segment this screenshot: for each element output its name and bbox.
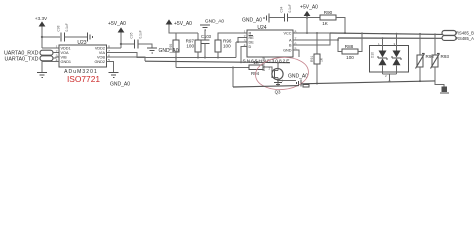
svg-text:GND_A0: GND_A0 — [242, 18, 262, 24]
chassis terminal — [440, 87, 449, 94]
wire — [232, 68, 234, 88]
power +5V_A0 — [166, 19, 198, 33]
port UARTA0_RXD — [4, 50, 59, 57]
svg-text:R: R — [249, 32, 252, 36]
resistor R94 — [249, 60, 272, 76]
svg-text:U23: U23 — [77, 40, 86, 46]
svg-text:+3.3V: +3.3V — [35, 16, 48, 21]
resistor R90 — [320, 10, 346, 34]
svg-text:UARTA0_TXD: UARTA0_TXD — [5, 57, 39, 63]
svg-text:GND_A0: GND_A0 — [205, 19, 225, 25]
wire GND2 — [107, 62, 114, 73]
svg-text:VDD2: VDD2 — [95, 47, 105, 51]
ground sideways GND_A0 — [288, 74, 308, 87]
svg-text:VIA: VIA — [99, 51, 106, 55]
svg-text:+5V_A0: +5V_A0 — [108, 21, 126, 27]
transistor Q3 BSS138 — [262, 57, 284, 94]
varistor R93 — [431, 33, 450, 81]
capacitor C103 — [201, 34, 212, 58]
ground GND_A0 — [147, 48, 179, 54]
svg-text:1K: 1K — [320, 57, 324, 62]
svg-text:GND: GND — [283, 49, 292, 53]
wire — [235, 42, 237, 58]
wire VDD2 — [107, 47, 122, 49]
svg-text:Q3: Q3 — [275, 90, 281, 95]
wire — [42, 36, 60, 38]
svg-text:R90: R90 — [324, 10, 333, 15]
svg-text:RE: RE — [249, 36, 255, 40]
svg-text:1K: 1K — [253, 60, 258, 65]
node junction — [41, 36, 43, 38]
node junction — [120, 43, 122, 45]
svg-text:D: D — [249, 45, 252, 49]
wire B — [293, 33, 330, 45]
ground GND_A0 — [242, 14, 269, 24]
wire — [42, 47, 59, 49]
wire ground rail right — [301, 81, 435, 84]
svg-text:100: 100 — [186, 44, 194, 49]
wire — [138, 44, 152, 48]
power +5V_A0 — [108, 21, 126, 48]
svg-text:GND2: GND2 — [94, 60, 105, 64]
wire — [278, 80, 296, 82]
wire VIA — [107, 53, 237, 58]
svg-text:ISO7721: ISO7721 — [67, 74, 100, 84]
svg-text:0.1uF: 0.1uF — [139, 30, 143, 38]
svg-text:R93: R93 — [441, 54, 450, 59]
svg-text:+5V_A0: +5V_A0 — [174, 21, 192, 27]
net tie box on rail — [303, 84, 309, 87]
TVS diode array D10 — [370, 33, 409, 82]
ground under Q3 — [274, 83, 282, 85]
wire GND — [293, 50, 299, 57]
svg-text:+5V_A0: +5V_A0 — [300, 5, 318, 11]
wire D — [241, 47, 247, 63]
svg-text:4: 4 — [244, 43, 246, 47]
capacitor C98 — [57, 23, 70, 41]
svg-text:C95: C95 — [130, 32, 134, 38]
varistor R92 — [416, 33, 435, 82]
svg-text:RS485_A: RS485_A — [456, 36, 474, 41]
svg-text:GND_A0: GND_A0 — [110, 82, 130, 88]
svg-text:VDD1: VDD1 — [61, 47, 71, 51]
svg-text:1K: 1K — [322, 21, 329, 26]
svg-text:0.1uF: 0.1uF — [65, 23, 69, 31]
svg-text:RS485_B: RS485_B — [456, 31, 474, 36]
resistor R91 — [310, 33, 324, 85]
wire ground rail left — [233, 86, 299, 87]
svg-text:D10: D10 — [371, 52, 375, 58]
wire VCC rail — [293, 32, 345, 34]
highlight ellipse — [254, 55, 310, 91]
svg-text:GND1: GND1 — [61, 60, 72, 64]
svg-text:R95: R95 — [169, 44, 173, 50]
wire — [65, 36, 88, 38]
svg-text:C94: C94 — [280, 6, 284, 12]
svg-text:VIB: VIB — [61, 56, 68, 60]
svg-text:3: 3 — [56, 54, 58, 58]
node junction drain — [277, 62, 279, 64]
ground sideways — [88, 33, 93, 42]
wire DE/RE node — [176, 67, 249, 69]
transceiver U24 SN65HVD3082E — [243, 25, 297, 65]
resistor R97 — [186, 33, 201, 58]
capacitor C94 — [280, 4, 293, 21]
resistor R88 — [338, 32, 363, 60]
svg-text:U24: U24 — [257, 25, 266, 31]
ground GND_A0 — [200, 19, 224, 41]
wire — [121, 43, 134, 45]
port UARTA0_TXD — [5, 56, 59, 63]
wire to chassis — [435, 81, 444, 87]
wire RE — [238, 38, 247, 43]
port RS485A — [442, 36, 474, 42]
svg-text:C103: C103 — [201, 34, 212, 39]
wire VOB — [107, 57, 146, 61]
node junctions — [175, 57, 177, 59]
wire A — [293, 38, 338, 40]
svg-text:1: 1 — [244, 30, 246, 34]
svg-text:C98: C98 — [57, 25, 61, 31]
resistor R95 — [169, 33, 179, 68]
svg-text:100: 100 — [346, 55, 354, 60]
svg-text:2: 2 — [244, 34, 246, 38]
isolator U23 ADuM3201 — [56, 40, 110, 75]
svg-text:R88: R88 — [345, 44, 354, 49]
svg-text:VCC: VCC — [283, 32, 291, 36]
power +3.3V — [35, 16, 48, 48]
svg-text:R91: R91 — [310, 56, 314, 62]
svg-text:2: 2 — [56, 49, 58, 53]
capacitor C95 — [130, 30, 143, 48]
wire — [288, 17, 321, 19]
node junction — [277, 80, 279, 82]
power +5V_A0 — [300, 5, 318, 34]
svg-text:100: 100 — [223, 44, 231, 49]
svg-text:VOB: VOB — [97, 56, 105, 60]
svg-text:1: 1 — [56, 45, 58, 49]
ground GND_A0 — [109, 73, 131, 88]
svg-text:DE: DE — [249, 41, 255, 45]
svg-text:GND_A0: GND_A0 — [288, 74, 308, 80]
wire — [269, 17, 284, 19]
wire GND1 — [42, 62, 59, 73]
wire DE — [236, 41, 247, 43]
svg-text:0.1uF: 0.1uF — [288, 4, 292, 12]
port RS485B — [442, 31, 474, 36]
svg-text:VOA: VOA — [61, 51, 69, 55]
ground — [37, 73, 47, 78]
svg-text:3: 3 — [244, 39, 246, 43]
resistor R96 — [215, 33, 247, 58]
